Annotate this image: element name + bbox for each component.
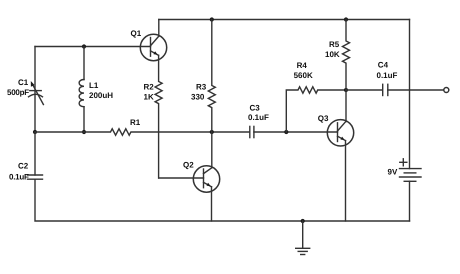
wire mid to C2: [34, 132, 36, 175]
capacitor C1: [7, 78, 43, 105]
node mid left: [33, 130, 37, 134]
node ground: [301, 219, 305, 223]
node R4 right / R5 bottom: [344, 88, 348, 92]
wire Q2 emitter: [211, 187, 213, 221]
svg-text:R5: R5: [329, 40, 340, 49]
svg-text:0.1uF: 0.1uF: [248, 113, 269, 122]
wire Q2 collector: [211, 132, 213, 168]
wire top rail: [159, 19, 410, 21]
transistor Q2: [183, 161, 220, 193]
node L1 top: [82, 44, 86, 48]
svg-text:9V: 9V: [388, 168, 398, 177]
svg-text:200uH: 200uH: [89, 91, 113, 100]
output terminal: [444, 88, 449, 93]
wire Q1 collector: [158, 20, 160, 37]
wire C3 to Q3 base: [254, 131, 338, 133]
resistor R4: [286, 61, 346, 132]
wire R2 to Q2 base: [159, 177, 204, 179]
resistor R2: [144, 55, 163, 178]
svg-text:0.1uF: 0.1uF: [377, 71, 398, 80]
transistor Q1: [131, 29, 167, 61]
resistor R3: [191, 20, 215, 133]
svg-text:C4: C4: [378, 60, 389, 69]
svg-text:R3: R3: [196, 83, 207, 92]
svg-text:10K: 10K: [325, 50, 340, 59]
capacitor C3: [248, 104, 269, 138]
wire right rail to battery: [409, 20, 411, 169]
wire C4 to output: [388, 89, 444, 91]
svg-text:R2: R2: [144, 83, 155, 92]
inductor L1: [79, 47, 113, 133]
capacitor C4: [377, 60, 398, 95]
svg-text:560K: 560K: [294, 71, 313, 80]
svg-text:C3: C3: [250, 104, 261, 113]
battery B1 9V: [388, 159, 422, 182]
capacitor C2: [9, 162, 43, 182]
wire bottom rail: [35, 179, 410, 221]
wire mid line with resistor R1: [35, 118, 250, 135]
svg-text:C1: C1: [18, 78, 29, 87]
svg-text:Q2: Q2: [183, 161, 194, 170]
wire Q3 collector: [345, 90, 347, 122]
svg-text:R4: R4: [297, 61, 308, 70]
svg-text:330: 330: [191, 92, 205, 101]
wire battery to bottom rail: [409, 181, 411, 221]
svg-text:0.1uF: 0.1uF: [9, 173, 29, 182]
wire Q3 emitter: [345, 141, 347, 221]
node R4 bottom: [284, 130, 288, 134]
transistor Q3: [318, 114, 354, 146]
svg-text:500pF: 500pF: [7, 88, 29, 97]
svg-text:Q1: Q1: [131, 29, 142, 38]
node R3 bottom: [210, 130, 214, 134]
wire R5 junction to C4: [346, 89, 382, 91]
wire Q1 base: [35, 46, 151, 48]
wire left vertical upper: [34, 47, 36, 133]
node R5 top: [344, 17, 348, 21]
svg-text:R1: R1: [130, 118, 141, 127]
node L1 bottom: [82, 130, 86, 134]
svg-text:C2: C2: [18, 162, 29, 171]
resistor R5: [325, 20, 350, 91]
svg-text:Q3: Q3: [318, 114, 329, 123]
ground: [296, 221, 310, 255]
svg-text:1K: 1K: [144, 92, 154, 101]
svg-text:L1: L1: [89, 81, 99, 90]
node R3 top: [210, 17, 214, 21]
